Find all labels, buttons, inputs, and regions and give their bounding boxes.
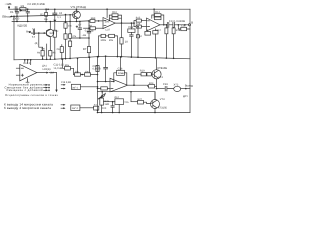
- resistor under C2 col: [53, 30, 56, 60]
- svg-text:R4: R4: [37, 51, 41, 54]
- svg-text:С3: С3: [32, 27, 36, 30]
- svg-text:100к: 100к: [100, 39, 106, 42]
- resistor R17 vert: [165, 24, 168, 59]
- svg-text:0,5: 0,5: [32, 36, 36, 39]
- legend dots: [48, 84, 50, 91]
- svg-text:R15: R15: [136, 16, 141, 19]
- op-amp big symbol: [16, 59, 56, 82]
- capacitor C15: [173, 22, 189, 27]
- svg-text:R23: R23: [149, 82, 154, 85]
- resistor R11: [98, 34, 106, 57]
- svg-text:0,1×2В: 0,1×2В: [85, 29, 94, 32]
- node C3 top: [16, 8, 18, 10]
- op-amp output: [37, 72, 47, 74]
- resistor R2: [45, 8, 49, 22]
- capacitor C4: [26, 9, 29, 16]
- capacitor C2: [53, 9, 57, 31]
- svg-text:VT2: VT2: [54, 30, 59, 33]
- wire drop x77.5: [77, 58, 79, 73]
- capacitor C14: [167, 22, 173, 27]
- resistor R8 input: [88, 20, 103, 23]
- svg-text:100,0: 100,0: [13, 18, 20, 21]
- resistor R20: [96, 66, 99, 72]
- svg-text:С13: С13: [128, 26, 133, 29]
- svg-text:1М: 1М: [49, 32, 52, 35]
- legend marks bottom: [61, 104, 66, 109]
- resistor R12: [105, 34, 118, 57]
- svg-text:VT1 КТ361Д: VT1 КТ361Д: [71, 6, 86, 9]
- wire DA1 power: [106, 8, 108, 17]
- resistor R4: [41, 50, 44, 59]
- svg-text:С16: С16: [118, 68, 123, 71]
- svg-text:СЛ: СЛ: [59, 12, 63, 15]
- resistor R15: [133, 19, 146, 27]
- box under DA2: [153, 29, 158, 59]
- feedback box C17: [113, 70, 127, 85]
- svg-text:ЗчГ-1: ЗчГ-1: [72, 86, 79, 89]
- wire DA2 out: [160, 24, 167, 26]
- svg-text:Т2А: Т2А: [124, 101, 129, 104]
- svg-text:R7: R7: [83, 48, 87, 51]
- box XZ: [94, 106, 99, 111]
- wire to R27: [131, 101, 138, 103]
- capacitor C20: [111, 102, 114, 114]
- svg-text:С20: С20: [102, 107, 107, 110]
- resistor R9 input: [84, 27, 104, 30]
- resistor R27 base: [138, 100, 151, 104]
- wire DA3 out: [128, 84, 135, 86]
- potentiometer R26: [98, 94, 105, 114]
- wire pot top: [98, 92, 111, 99]
- svg-text:R16: R16: [136, 22, 141, 25]
- svg-text:ДСт: ДСт: [183, 95, 189, 98]
- svg-text:VT2: VT2: [158, 76, 163, 79]
- resistor network row1: [62, 58, 74, 74]
- svg-text:VT3: VT3: [160, 98, 165, 101]
- svg-text:1,1: 1,1: [57, 16, 61, 19]
- wire col65.5: [65, 14, 67, 23]
- capacitor C3 polar: [15, 9, 21, 16]
- resistor R5: [49, 50, 52, 60]
- svg-text:100: 100: [41, 48, 46, 51]
- svg-text:20к: 20к: [109, 39, 114, 42]
- svg-text:2М: 2М: [50, 72, 54, 75]
- svg-text:10мк: 10мк: [118, 72, 125, 75]
- resistor R18 vert: [172, 27, 175, 59]
- resistor R21 lower in: [97, 87, 110, 90]
- resistor network row2: [74, 73, 99, 76]
- svg-text:47к: 47к: [72, 35, 77, 38]
- op-amp DA1.1: [103, 18, 115, 29]
- input arrow VchF: [29, 31, 32, 33]
- node C3 bottom: [16, 15, 18, 17]
- wire long vertical x97.5: [97, 56, 99, 113]
- svg-text:×1,0 кВ: ×1,0 кВ: [54, 67, 63, 70]
- svg-text:C2 100,0×25В: C2 100,0×25В: [27, 3, 44, 6]
- svg-text:0,1×2В: 0,1×2В: [93, 68, 101, 71]
- svg-text:R14: R14: [155, 11, 160, 14]
- node row3 x17: [16, 16, 18, 22]
- jack XT: [174, 86, 190, 91]
- transistor VT3: [151, 92, 160, 114]
- svg-text:−4В: −4В: [82, 34, 87, 37]
- capacitor C6: [60, 45, 63, 60]
- resistor R16: [134, 25, 147, 28]
- feedback R14: [152, 14, 165, 26]
- capacitor col89: [87, 29, 91, 46]
- wire mid ground rail: [14, 56, 190, 60]
- wire top rail -12V: [9, 8, 190, 10]
- resistor R6 col70: [69, 22, 72, 60]
- svg-text:10к: 10к: [44, 18, 49, 21]
- svg-text:C1: C1: [10, 10, 14, 14]
- wire drop x89.5: [89, 56, 91, 72]
- op-amp DA2.1: [110, 78, 128, 92]
- svg-text:С6: С6: [57, 48, 61, 51]
- wire bottom mid top line: [101, 91, 155, 102]
- legend marks group1: [61, 84, 65, 90]
- svg-text:КТ315Б: КТ315Б: [158, 106, 167, 109]
- node C4 bottom: [27, 15, 29, 17]
- wire DA3 power: [120, 56, 122, 70]
- transistor VT2 right: [152, 58, 161, 90]
- node row3 x27.7: [27, 16, 29, 22]
- svg-text:С19 0,5М: С19 0,5М: [61, 81, 71, 84]
- box C12: [136, 26, 139, 58]
- legend arrow row3: [44, 89, 49, 91]
- svg-text:1М0: 1М0: [104, 103, 109, 106]
- svg-text:R19: R19: [140, 70, 145, 73]
- svg-text:С19: С19: [163, 83, 168, 86]
- svg-text:R17: R17: [157, 29, 162, 32]
- wire col46: [46, 44, 48, 60]
- wire DA1 out: [115, 22, 134, 24]
- box ZchG-2: [71, 105, 94, 111]
- arrow down x56.5: [55, 73, 57, 93]
- svg-text:КД102Б: КД102Б: [18, 24, 28, 27]
- svg-text:DA1.2: DA1.2: [23, 62, 30, 65]
- svg-text:1К: 1К: [125, 40, 128, 43]
- wire row3: [12, 20, 88, 23]
- resistor R3a: [64, 23, 67, 34]
- op-amp inputs: [16, 68, 23, 76]
- feedback R10: [109, 14, 123, 24]
- wire drop x38.8: [39, 33, 43, 50]
- svg-text:R8З: R8З: [91, 17, 96, 20]
- wire mid row y101.7: [104, 101, 115, 103]
- node after R1: [27, 8, 29, 10]
- svg-text:R1: R1: [21, 4, 25, 8]
- svg-text:В: В: [191, 22, 193, 25]
- svg-text:С14 1,0×300В: С14 1,0×300В: [169, 20, 185, 23]
- wire bottom rail: [98, 112, 191, 114]
- resistor R13 vert: [120, 23, 123, 57]
- svg-text:DA1: DA1: [105, 20, 110, 23]
- wire right border: [189, 9, 191, 112]
- svg-text:ЗчГ-2: ЗчГ-2: [72, 107, 79, 110]
- terminal out right: [188, 24, 190, 26]
- resistor R1: [20, 8, 28, 11]
- op-amp pins from rail: [25, 60, 31, 65]
- box ZchG-1: [71, 84, 98, 89]
- node -12V: [8, 6, 10, 9]
- svg-text:R18: R18: [176, 29, 181, 32]
- wire -4V bus: [72, 37, 90, 39]
- capacitor C1: [14, 7, 20, 12]
- resistor R22 base feed: [134, 73, 153, 86]
- box C13: [128, 22, 135, 58]
- svg-text:140УД1: 140УД1: [42, 68, 51, 71]
- svg-text:ХТ2: ХТ2: [174, 83, 179, 86]
- capacitor C19: [165, 86, 173, 91]
- wire DA3 in upper: [97, 81, 110, 83]
- wire DA2 power: [153, 8, 155, 18]
- svg-text:R5: R5: [53, 51, 57, 54]
- svg-text:С16: С16: [181, 25, 186, 28]
- svg-text:−12В: −12В: [5, 2, 12, 6]
- resistor R7 col89: [87, 47, 90, 59]
- svg-text:С7: С7: [78, 23, 82, 26]
- svg-text:4Д: 4Д: [35, 42, 38, 45]
- wire VT1 base drop: [69, 14, 72, 22]
- svg-text:ОВход: ОВход: [2, 14, 11, 18]
- transistor VT2a: [46, 21, 54, 51]
- svg-text:КТ815Б: КТ815Б: [158, 67, 168, 70]
- transistor VT1: [73, 8, 81, 22]
- box under DA2 left: [145, 30, 151, 35]
- wire row3 to col89: [88, 21, 90, 29]
- svg-text:13к: 13к: [68, 24, 73, 27]
- svg-text:Смещение с добавкой: Смещение с добавкой: [6, 88, 43, 92]
- svg-text:Осциллограммы сигналов в точка: Осциллограммы сигналов в точках: [5, 94, 59, 97]
- resistor R3b: [64, 34, 67, 60]
- svg-text:С12: С12: [137, 35, 142, 38]
- box U2: [115, 99, 124, 113]
- resistor R19 top right: [178, 25, 190, 31]
- svg-text:1,37: 1,37: [105, 29, 110, 32]
- wire input row2: [11, 15, 71, 17]
- svg-text:R27: R27: [138, 98, 143, 101]
- svg-text:Выход: Выход: [185, 85, 193, 88]
- resistor R23: [134, 85, 157, 88]
- svg-text:К выводу 4 микросхем канала: К выводу 4 микросхем канала: [4, 106, 51, 110]
- capacitor C16: [104, 55, 108, 81]
- wire output row right: [157, 88, 165, 90]
- capacitor C7: [76, 21, 82, 38]
- op-amp DA1.2: [147, 18, 161, 31]
- legend arrow row2: [44, 87, 49, 89]
- svg-text:R10: R10: [112, 11, 117, 14]
- svg-text:29,2: 29,2: [114, 96, 119, 99]
- legend arrow row1: [44, 84, 49, 86]
- wire left column: [13, 16, 15, 60]
- svg-text:ВчФ: ВчФ: [26, 31, 31, 34]
- capacitor C3in: [31, 30, 46, 35]
- op-amp bottom pin: [26, 79, 29, 83]
